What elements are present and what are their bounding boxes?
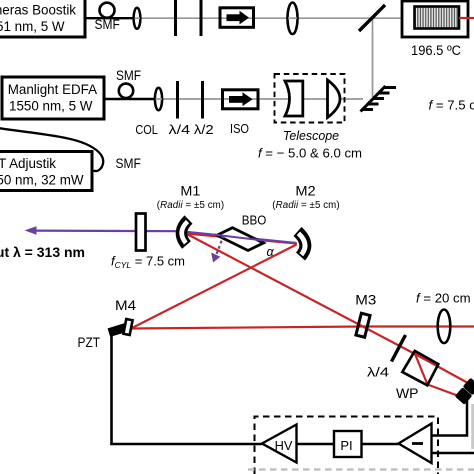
oven box: [402, 1, 468, 37]
waveplate lambda/2 row2: [201, 81, 204, 119]
beam 1051nm row1 gray: [137, 17, 403, 19]
svg-text:SMF: SMF: [116, 68, 141, 83]
wire laser1 to collimator: [83, 17, 134, 19]
svg-text:M1: M1: [180, 184, 200, 199]
isolator row1: [220, 8, 254, 28]
gray edge strip: [471, 404, 474, 449]
waveplate lambda/2 row1: [200, 0, 203, 36]
telescope concave lens: [285, 81, 303, 116]
svg-text:M2: M2: [295, 184, 315, 199]
PPLN crystal hatched: [415, 7, 460, 29]
svg-text:SMF: SMF: [95, 17, 120, 32]
amplifier HV: [262, 425, 297, 463]
photodetector 1: [463, 378, 474, 396]
fiber loop SMF row2: [119, 84, 133, 98]
subtractor amplifier: [399, 424, 432, 464]
waveplate lambda/4 tilted: [392, 335, 406, 362]
svg-text:M4: M4: [115, 298, 137, 313]
servo dashed box: [255, 417, 439, 474]
svg-text:λ/2: λ/2: [194, 122, 214, 137]
lens f20: [438, 310, 451, 344]
laser box NKT Adjustik: [0, 152, 92, 191]
svg-text:1550 nm, 5 W: 1550 nm, 5 W: [9, 99, 93, 114]
svg-text:NKT Adjustik: NKT Adjustik: [0, 156, 56, 171]
Wollaston prism WP: [402, 351, 438, 385]
svg-text:196.5 ºC: 196.5 ºC: [411, 43, 461, 58]
wire PI to subtractor: [362, 443, 399, 446]
dashed purple walkoff arrow: [216, 236, 224, 256]
svg-text:f = − 5.0 & 6.0 cm: f = − 5.0 & 6.0 cm: [258, 146, 362, 161]
photodetector 2: [455, 387, 473, 405]
telescope convex lens: [328, 80, 341, 118]
svg-text:(Radii = ±5 cm): (Radii = ±5 cm): [272, 200, 339, 211]
svg-text:PZT: PZT: [78, 335, 101, 350]
steering mirror hatched: [361, 86, 397, 112]
svg-text:λ/4: λ/4: [367, 365, 389, 380]
svg-text:f = 20 cm: f = 20 cm: [416, 291, 471, 306]
beam 1550nm row2 gray: [158, 98, 363, 100]
svg-text:SMF: SMF: [116, 156, 141, 171]
svg-text:COL: COL: [135, 122, 158, 137]
collimator lens COL row2: [155, 88, 162, 111]
svg-text:WP: WP: [396, 386, 419, 401]
svg-text:α: α: [267, 245, 275, 259]
isolator row2: [223, 90, 259, 109]
svg-text:λ/4: λ/4: [169, 122, 191, 137]
lens row1: [288, 2, 298, 34]
svg-text:Telescope: Telescope: [283, 128, 339, 143]
telescope dashed box: [275, 74, 345, 123]
beam red WP lower output: [428, 385, 461, 397]
svg-text:put λ = 313 nm: put λ = 313 nm: [0, 244, 85, 260]
laser box Manlight EDFA: [2, 77, 104, 119]
minus sign: [412, 442, 423, 445]
cylindrical lens fcyl: [136, 214, 146, 251]
BBO crystal: [217, 228, 264, 251]
beam 626nm out of oven red: [459, 17, 474, 19]
laser box Koheras Boostik: [0, 0, 85, 37]
svg-text:1050 nm, 32 mW: 1050 nm, 32 mW: [0, 173, 84, 188]
svg-text:1051 nm, 5 W: 1051 nm, 5 W: [0, 19, 65, 34]
servo box PI: [334, 431, 362, 457]
svg-text:(Radii = ±5 cm): (Radii = ±5 cm): [157, 200, 224, 211]
beam red M1 to M3 to WP: [186, 234, 415, 355]
svg-text:ISO: ISO: [230, 121, 249, 136]
beam vertical combine gray: [372, 18, 374, 97]
beam red WP internal: [415, 354, 428, 385]
beam purple 313nm output arrow: [33, 230, 180, 233]
mirror M3: [356, 313, 370, 337]
dichroic mirror: [359, 5, 385, 31]
svg-text:Koheras Boostik: Koheras Boostik: [0, 3, 76, 18]
beam purple 313nm in cavity: [180, 231, 296, 243]
wire laser2 to collimator: [104, 98, 156, 100]
mirror M1: [181, 220, 188, 246]
beam red M1 to M2: [186, 234, 297, 244]
fiber SMF curve seed: [0, 128, 103, 171]
svg-text:M3: M3: [355, 293, 376, 308]
wire PZT to HV: [112, 336, 263, 444]
gray dashed bottom: [248, 468, 474, 470]
beam red M2 to M4: [131, 245, 297, 329]
mirror M2: [298, 232, 306, 257]
wire lower input subtractor: [432, 452, 474, 455]
beam red WP upper output: [415, 354, 467, 383]
waveplate lambda/4 row2: [176, 81, 179, 119]
svg-text:f = 7.5 cm: f = 7.5 cm: [429, 98, 474, 113]
svg-text:BBO: BBO: [242, 213, 267, 228]
beam red M4 to M3 to lens out: [131, 327, 474, 329]
svg-text:Manlight EDFA: Manlight EDFA: [8, 82, 97, 97]
collimator lens row1: [134, 8, 141, 29]
svg-text:HV: HV: [275, 438, 293, 453]
mirror M4 on PZT: [123, 319, 132, 335]
wire detector to subtractor: [432, 400, 468, 436]
fiber loop SMF row1: [100, 3, 115, 18]
beam purple through BBO: [214, 235, 264, 241]
PZT block M4: [108, 323, 127, 337]
waveplate lambda/4 row1: [174, 0, 177, 36]
svg-text:PI: PI: [340, 438, 352, 453]
wire HV to PI: [297, 443, 335, 446]
